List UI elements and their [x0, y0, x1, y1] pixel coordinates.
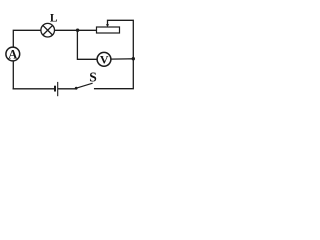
node B junction dot: [132, 57, 135, 60]
svg-text:S: S: [89, 69, 97, 84]
lamp L: [41, 23, 55, 37]
wire: battery to switch pivot: [58, 88, 75, 90]
battery: short thick negative plate: [54, 86, 56, 92]
resistor R (rheostat body): [97, 27, 120, 33]
switch S lever: [76, 83, 92, 88]
battery: long thin positive plate: [57, 82, 59, 96]
node A junction dot: [76, 29, 79, 32]
ammeter A1: [6, 47, 20, 61]
voltmeter V1: [97, 52, 111, 66]
svg-text:L: L: [50, 13, 58, 25]
wire: bottom wire battery left: [13, 88, 54, 90]
wire: voltmeter to node B: [111, 58, 134, 60]
wire: left vertical + top wire to lamp: [13, 30, 41, 89]
wire: lamp to junction A to resistor: [54, 29, 96, 31]
switch S pivot dot: [75, 87, 78, 90]
svg-text:A: A: [8, 47, 17, 61]
wire: junction A down and right to voltmeter: [77, 30, 97, 59]
rheostat slider arrowhead: [106, 24, 109, 27]
svg-text:V: V: [100, 53, 109, 67]
wire: slider arm up, over, right vertical down, bottom wire to switch: [95, 20, 134, 88]
